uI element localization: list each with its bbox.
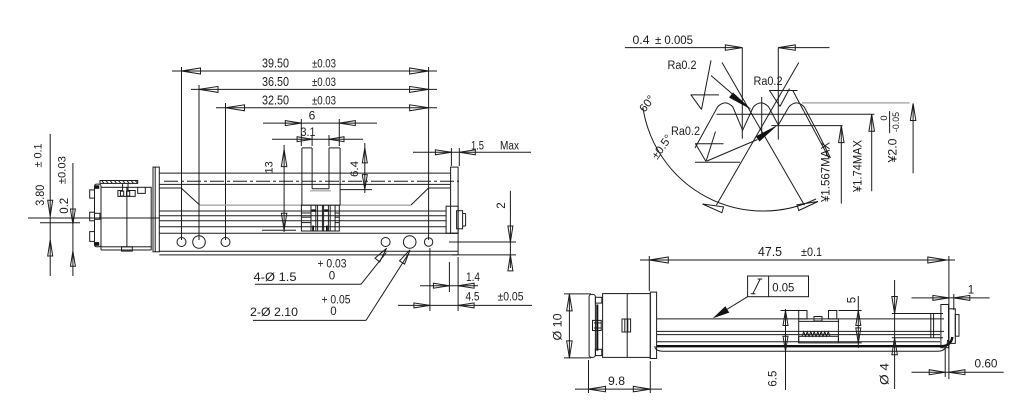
bottom view motor: dark seam bar [596, 305, 598, 351]
svg-text:±0.05: ±0.05 [498, 292, 524, 304]
svg-text:Ø 10: Ø 10 [553, 314, 565, 341]
thread detail: crest line [802, 102, 910, 104]
bottom view: lead screw exposed end [892, 313, 943, 315]
svg-text:4.5: 4.5 [466, 292, 480, 304]
svg-text:±0.03: ±0.03 [312, 57, 336, 71]
svg-text:±0.03: ±0.03 [312, 93, 336, 107]
bottom view motor: rear cap [589, 294, 595, 357]
left view: dimension 6 (slider width) [263, 122, 377, 124]
bottom view slider: lower block [799, 336, 839, 343]
svg-text:1.4: 1.4 [466, 272, 481, 284]
bottom view motor: body [603, 294, 651, 358]
bottom view motor: rear detail rects [595, 297, 601, 303]
left view: dimension 3.80 +-0.1 (rotated) [49, 134, 51, 276]
left view: dimension 4.5 +-0.05 [398, 304, 532, 306]
svg-text:¥1.567MAX: ¥1.567MAX [821, 142, 833, 203]
thread detail: depth dimension 1.567MAX (rotated) [840, 126, 842, 204]
left view: dimension 6.4 (slot depth, rotated) [364, 143, 366, 193]
channel: pocket profile with chamfers [159, 187, 181, 189]
svg-text:0.60: 0.60 [975, 359, 998, 371]
right end bracket: bearing block [446, 206, 458, 233]
svg-text:1.5: 1.5 [471, 141, 484, 153]
svg-text:±0.1: ±0.1 [801, 245, 822, 259]
svg-text:2-Ø 2.10: 2-Ø 2.10 [250, 305, 298, 319]
channel: rail lower edge [159, 183, 450, 185]
svg-text:4-Ø 1.5: 4-Ø 1.5 [254, 270, 297, 284]
bottom view: dimension dia 4 (rotated) [894, 280, 896, 389]
svg-text:2: 2 [496, 202, 508, 208]
lead screw: outline lines [159, 210, 446, 212]
svg-text:-0.05: -0.05 [891, 112, 902, 132]
motor: connector body and pins [118, 183, 135, 196]
svg-text:0: 0 [330, 306, 336, 318]
left view: dimension 3.1 (slot width) [272, 138, 363, 140]
left view: motor axis centerline [28, 217, 160, 219]
bottom view channel: top edge [657, 318, 944, 320]
svg-text:Ø 4: Ø 4 [880, 362, 892, 385]
left view: dimension 36.50 +-0.03 [191, 88, 437, 90]
bottom view: flatness frame 0.05 with leader [748, 276, 809, 297]
thread detail: pitch reference line [717, 113, 875, 115]
bottom view motor: terminal detail [622, 319, 631, 332]
motor: top-right boss [138, 187, 146, 193]
slider: U-shaped fork arms [302, 147, 312, 149]
thread detail: thread profile [695, 103, 831, 158]
svg-text:0.05: 0.05 [772, 280, 794, 294]
svg-text:0.4: 0.4 [633, 33, 650, 47]
motor: body outline [101, 187, 151, 247]
motor: rear end cap [95, 184, 102, 247]
svg-text:3.1: 3.1 [301, 127, 316, 139]
channel: centerline dash-dot [164, 180, 459, 182]
svg-text:Max: Max [500, 141, 519, 153]
motor: front mounting bracket [153, 167, 159, 252]
svg-text:32.50: 32.50 [262, 93, 289, 107]
right end bracket: shaft tab [457, 211, 463, 229]
left view: dimension 2 (right step, rotated) [449, 241, 516, 243]
svg-text:¥2.0: ¥2.0 [888, 139, 900, 164]
svg-text:0.2: 0.2 [59, 198, 71, 214]
bottom view: dimension 6.5 (rotated) [785, 309, 787, 390]
bottom view motor: front flange [650, 292, 656, 358]
motor: bottom tab [122, 247, 133, 251]
svg-text:0: 0 [329, 271, 335, 283]
bottom view motor: dimension 9.8 [575, 388, 662, 390]
svg-text:36.50: 36.50 [262, 75, 289, 89]
bottom view channel: thick bottom wall [657, 337, 952, 346]
thread detail: root reference line [771, 125, 842, 127]
right end bracket: plate [451, 167, 459, 233]
svg-text:9.8: 9.8 [608, 374, 625, 388]
bottom view: shaft end cap [941, 305, 949, 348]
bottom view channel: outer bottom edge [655, 340, 948, 351]
svg-text:47.5: 47.5 [758, 245, 782, 259]
svg-text:1: 1 [968, 285, 974, 297]
thread detail: depth dimension 2.0 with tolerance 0/-0.05 (rotated) [912, 104, 914, 174]
svg-text:Ra0.2: Ra0.2 [754, 76, 783, 88]
svg-text:± 0.1: ± 0.1 [33, 144, 45, 168]
svg-text:¥1.74MAX: ¥1.74MAX [853, 140, 865, 193]
bottom view slider: body [798, 319, 800, 343]
left view: dimension 0.2 +-0.03 (rotated) [72, 163, 74, 276]
bottom view: dimension 5 (rotated) [857, 296, 859, 348]
bottom view motor: dia 10 dimension (rotated) [568, 294, 570, 358]
svg-text:Ra0.2: Ra0.2 [671, 126, 700, 138]
left view: dimension 32.50 +-0.03 [216, 107, 437, 109]
svg-text:±0.03: ±0.03 [312, 75, 336, 89]
bottom view slider: thread zigzag [802, 332, 830, 337]
svg-text:+ 0.05: + 0.05 [322, 295, 351, 307]
left view: extension lines for hole-pitch dimensions [181, 67, 183, 240]
bottom view: dimension 47.5 +-0.1 [640, 259, 955, 261]
thread detail: angular dimension arc 60 +-0.5 deg [643, 108, 816, 211]
left view: dimension 39.50 +-0.03 [172, 70, 437, 72]
svg-text:0: 0 [879, 115, 890, 120]
left view: dimension 1.4 [420, 285, 478, 287]
motor: connector hatched bar [100, 181, 138, 184]
base plate [159, 232, 458, 234]
channel: top edge [159, 172, 450, 174]
bottom view slider: top tabs [799, 311, 807, 319]
svg-text:5: 5 [847, 297, 859, 303]
bottom view channel: inner lines [657, 330, 944, 332]
svg-text:± 0.005: ± 0.005 [655, 33, 693, 47]
svg-text:39.50: 39.50 [262, 57, 289, 71]
svg-text:±0.03: ±0.03 [57, 156, 69, 184]
svg-text:3.80: 3.80 [35, 185, 47, 206]
svg-text:+ 0.03: + 0.03 [318, 259, 347, 271]
thread detail: 60 degree construction lines [722, 63, 804, 206]
thread detail: depth dimension 1.74MAX (rotated) [871, 114, 873, 191]
bottom view: right extension line [948, 256, 950, 379]
base plate: mounting holes [177, 238, 186, 247]
svg-text:6.5: 6.5 [768, 371, 780, 387]
svg-text:13: 13 [264, 161, 276, 173]
motor: rear tabs and shaft hub [90, 190, 95, 198]
svg-text:Ra0.2: Ra0.2 [668, 60, 697, 72]
svg-text:6: 6 [309, 109, 316, 123]
thread detail: pitch extension lines [741, 48, 743, 139]
left view: dimension 13 (slider height, rotated) [283, 145, 285, 232]
svg-text:6.4: 6.4 [349, 161, 361, 177]
slider: lower block [301, 205, 339, 231]
thread detail: leader arrows (filled) [729, 93, 752, 111]
svg-text:60°: 60° [638, 94, 658, 115]
left view: dimension 1.5 Max [413, 151, 531, 153]
